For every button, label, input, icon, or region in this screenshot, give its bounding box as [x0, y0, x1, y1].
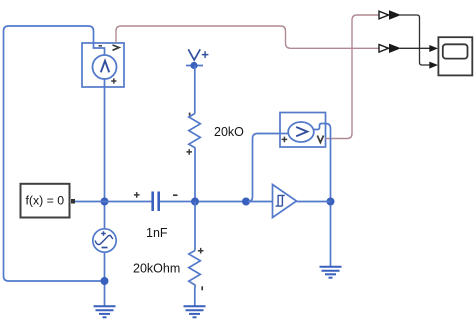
black signal wire: top converter down to scope lower input [400, 15, 430, 65]
signal arrowhead (top, filled) [389, 10, 401, 19]
resistor R1 zigzag [189, 114, 201, 149]
scope input arrowhead 2 [429, 62, 438, 69]
V+ supply terminal [186, 49, 208, 69]
black signal wire: lower converter to scope upper input [400, 47, 430, 49]
wire: voltage sensor minus lead down right side to row junction and ground [326, 124, 331, 267]
solver configuration block f(x)=0 [21, 184, 76, 218]
svg-text:20kOhm: 20kOhm [133, 262, 180, 276]
red physical signal: voltage sensor V output up to converter [326, 15, 380, 139]
node: voltage sense tap junction [242, 198, 250, 206]
sine voltage source AC1 [93, 229, 116, 252]
current sensor CS1 [82, 43, 124, 87]
voltage sensor VS1 [280, 113, 326, 148]
signal arrowhead (lower, filled) [389, 44, 401, 53]
R1 minus mark [189, 113, 191, 116]
resistor R2 top lead [194, 202, 196, 251]
wire: V+ terminal to resistor R1 [194, 66, 196, 114]
svg-text:1nF: 1nF [146, 226, 168, 240]
R2 minus mark [201, 286, 203, 290]
PS-Simulink converter arrow (lower, open triangle) [379, 45, 389, 53]
wire: left feedback loop from current sensor to bottom node [4, 26, 105, 281]
R1 plus mark [186, 149, 192, 155]
red physical signal: current sensor output to converter [116, 26, 379, 48]
wire: solver block to node A [75, 201, 105, 203]
wire: current sensor internal jog to meter circle [94, 43, 105, 56]
wire: R1 bottom to main row [194, 148, 196, 202]
ground symbol (bottom left) [94, 306, 116, 317]
scope input arrowhead 1 [429, 45, 438, 52]
wire: main row node A to capacitor [105, 201, 152, 203]
node: bottom junction [101, 277, 109, 285]
node: comparator output junction [327, 198, 335, 206]
resistor R2 zigzag [189, 251, 201, 289]
svg-text:f(x) = 0: f(x) = 0 [25, 194, 64, 208]
wire: R2 bottom to ground [194, 288, 196, 306]
capacitor C1 [134, 192, 178, 212]
PS-Simulink converter arrow (top, open triangle) [379, 11, 389, 19]
comparator / schmitt trigger U1 [273, 185, 297, 218]
ground symbol (bottom middle) [184, 306, 206, 317]
wire: current sensor bottom lead down to node A [104, 79, 106, 229]
R2 plus mark [198, 248, 204, 254]
wire: capacitor right plate along main row to triangle [160, 201, 273, 203]
scope block [438, 37, 472, 75]
wire: sine source bottom lead to bottom node and ground lead [104, 252, 106, 306]
node: capacitor / resistor column junction [191, 198, 199, 206]
ground symbol (right) [320, 267, 342, 278]
node A: main row junction at sine column [101, 198, 109, 206]
svg-text:20kO: 20kO [214, 125, 244, 139]
wire: comparator output to right junction [297, 201, 331, 203]
wire: tap node up to voltage sensor input [248, 134, 280, 202]
